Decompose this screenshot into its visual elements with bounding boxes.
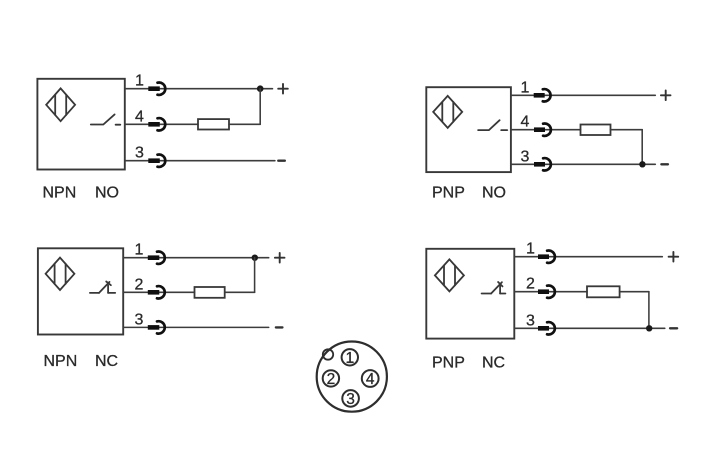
switch contact NC right lead [108,292,115,294]
svg-text:3: 3 [135,145,144,162]
connector pin 3 plug arc [157,321,165,333]
switch contact NC moving blade [491,282,502,293]
connector pin 2 plug arc [547,286,555,298]
switch contact NC moving blade [99,282,110,293]
wire pin4 left segment [125,123,198,125]
switch contact NO [91,114,115,124]
switch fixed terminal dash [116,124,121,126]
connector keyway notch circle [323,349,333,359]
plus terminal [275,253,285,263]
sensor diamond left chord [54,264,56,284]
svg-text:2: 2 [526,276,535,293]
node junction wire1/resistor [257,85,264,92]
sensor symbol diamond [435,259,464,291]
sensor body box PNP NC [426,249,514,339]
connector pin 3 plug rect [148,325,160,330]
connector pin 4 plug rect [534,127,545,132]
svg-text:NC: NC [95,353,118,370]
svg-text:NPN: NPN [43,185,77,202]
minus terminal [276,326,283,328]
sensor diamond left chord [54,95,56,115]
wire vertical resistor to junction [641,130,643,165]
wire pin1 to plus [125,88,273,90]
connector pin 2 plug rect [538,289,549,294]
sensor diamond left chord [441,102,443,122]
sensor body box PNP NO [426,87,511,172]
switch contact NO [478,120,500,130]
connector pin 3 plug rect [534,162,545,167]
connector pin 3 plug arc [158,155,166,167]
connector pin 1 circle [342,349,358,365]
svg-text:1: 1 [520,79,529,96]
wire pin3 to minus [123,326,269,328]
switch contact NC stop tick [106,282,111,286]
svg-text:NC: NC [482,355,505,372]
connector pin 2 plug rect [148,290,160,295]
connector pin 4 plug arc [543,123,551,135]
wire pin2 left segment [514,291,587,293]
wire pin4 left segment [511,129,581,131]
svg-text:PNP: PNP [432,355,465,372]
wire resistor to vertical [620,291,649,293]
svg-text:4: 4 [520,114,529,131]
wire pin2 left segment [123,291,194,293]
wire resistor to vertical [229,123,260,125]
minus terminal [278,159,285,161]
sensor diamond right chord [454,266,456,286]
svg-text:1: 1 [526,241,535,258]
svg-text:3: 3 [135,311,144,328]
resistor load NPN NO [198,119,229,129]
sensor diamond right chord [65,264,67,284]
connector pin 4 circle [362,370,379,387]
wire pin1 to plus [514,256,662,258]
connector face outer circle [317,342,387,412]
svg-text:3: 3 [526,312,535,329]
wire pin3 to minus [514,327,665,329]
connector pin 3 plug rect [538,326,549,331]
svg-text:NPN: NPN [44,353,78,370]
svg-text:4: 4 [366,371,375,388]
wire resistor to vertical [225,291,255,293]
connector pin 1 plug rect [148,255,160,260]
node junction wire3/resistor [646,325,652,331]
connector pin 2 circle [323,370,339,386]
connector pin 2 plug arc [157,286,165,298]
connector pin 3 plug arc [547,322,555,334]
connector pin 3 plug rect [148,158,160,163]
wire pin1 to plus [511,94,655,96]
wire pin1 to plus [123,257,269,259]
svg-text:1: 1 [345,350,354,367]
svg-text:3: 3 [520,148,529,165]
minus terminal [670,327,677,329]
connector pin 3 circle [342,390,359,407]
svg-text:2: 2 [327,371,336,388]
wire pin3 to minus [511,163,655,165]
wire vertical resistor to junction [648,292,650,329]
connector pin 3 plug arc [543,158,551,170]
connector pin 4 plug rect [148,122,160,127]
sensor body box NPN NO [37,79,124,170]
switch contact NC left lead [90,292,99,294]
wire vertical resistor to junction [259,89,261,125]
svg-text:1: 1 [135,73,144,90]
connector pin 1 plug arc [543,89,551,101]
connector pin 4 plug arc [158,118,166,130]
wire pin3 to minus [125,160,275,162]
svg-text:NO: NO [95,185,119,202]
switch fixed terminal dash [501,129,507,131]
sensor diamond right chord [65,95,67,115]
svg-text:2: 2 [135,276,144,293]
switch contact NC stop tick [498,282,502,286]
resistor load PNP NC [587,286,620,297]
switch contact NC stop vertical [499,285,501,294]
switch contact NC stop vertical [107,285,109,293]
plus terminal [669,252,679,262]
wire vertical resistor to junction [254,258,256,293]
sensor symbol diamond [433,96,462,128]
node junction wire1/resistor [252,255,258,261]
switch contact NC left lead [482,293,492,295]
sensor body box NPN NC [38,248,123,334]
svg-text:NO: NO [482,185,506,202]
wire resistor to vertical [611,129,643,131]
resistor load PNP NO [581,125,611,136]
connector pin 1 plug arc [157,252,165,264]
switch contact NC right lead [500,293,505,295]
resistor load NPN NC [195,287,225,298]
connector pin 1 plug rect [538,254,549,259]
connector pin 1 plug arc [547,251,555,263]
connector pin 1 plug arc [158,83,166,95]
svg-text:3: 3 [346,391,355,408]
svg-text:4: 4 [135,108,144,125]
sensor diamond right chord [452,102,454,122]
sensor symbol diamond [46,258,75,290]
plus terminal [278,84,288,94]
connector pin 1 plug rect [534,93,545,98]
sensor diamond left chord [443,266,445,286]
plus terminal [661,91,671,101]
node junction wire3/resistor [639,161,645,167]
svg-text:PNP: PNP [432,185,465,202]
svg-text:1: 1 [135,242,144,259]
minus terminal [661,163,668,165]
connector pin 1 digit foot [347,361,353,363]
sensor symbol diamond [46,88,75,121]
connector pin 1 plug rect [148,86,160,91]
